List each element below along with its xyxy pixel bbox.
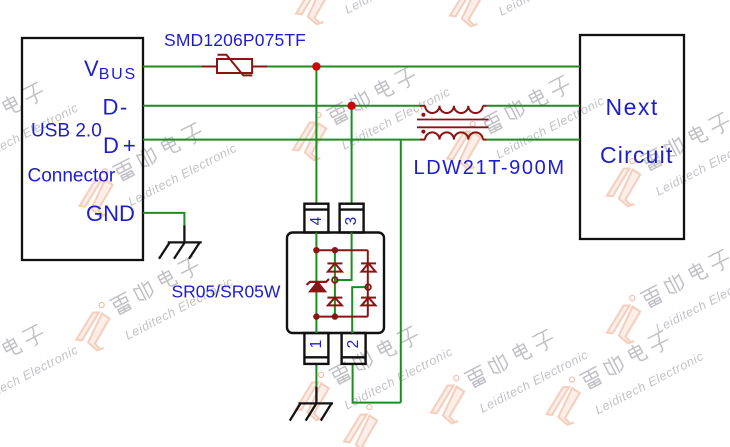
watermark tile mid-center — [281, 53, 453, 175]
wire GND from connector — [143, 213, 184, 227]
watermark tile mid-left — [67, 109, 239, 231]
common mode choke LDW21T-900M — [417, 106, 489, 140]
Next Circuit box — [580, 35, 684, 239]
junction VBUS node — [312, 62, 320, 70]
wire middle diode column — [334, 250, 336, 316]
svg-text:SR05/SR05W: SR05/SR05W — [172, 282, 281, 302]
ground symbol below SR05 pin 1 — [290, 387, 333, 421]
watermark tile bottom-edge — [332, 401, 394, 447]
steering diode top middle — [327, 263, 342, 271]
wire VBUS from fuse to Next Circuit — [268, 66, 580, 68]
wire D+ drop at right — [400, 140, 402, 403]
svg-text:2: 2 — [345, 340, 362, 349]
watermark tile top-center — [284, 0, 456, 39]
USB 2.0 connector box J1 — [22, 38, 143, 260]
wire pin 1 to ground — [315, 364, 317, 388]
wire pin 3 into body — [335, 233, 352, 281]
junction top rail left — [313, 247, 319, 253]
wire pin 4 through body to pin 1 — [315, 233, 317, 334]
svg-text:GND: GND — [86, 201, 135, 226]
watermark tile top-right — [438, 0, 610, 41]
wire VBUS drop to pin 4 — [315, 67, 317, 205]
SR05 pin 4 box — [304, 204, 328, 233]
watermark tile bottom-left-edge — [0, 311, 81, 433]
watermark tile right-lower — [595, 236, 730, 358]
wire bottom run to pin 2 — [353, 364, 401, 403]
TVS zener diode — [307, 279, 330, 291]
junction top rail middle — [332, 247, 338, 253]
svg-text:D+: D+ — [103, 133, 140, 158]
svg-text:3: 3 — [343, 217, 360, 226]
junction middle column node — [332, 277, 338, 283]
wire D- from choke to Next Circuit — [487, 105, 580, 107]
junction D- node — [347, 102, 355, 110]
junction bottom rail middle — [332, 313, 338, 319]
steering diode bottom middle — [327, 298, 342, 306]
choke phase dot winding 1 — [421, 113, 425, 117]
SR05 internal bottom rail — [316, 316, 367, 318]
watermark tile bottom-right — [534, 317, 706, 439]
svg-text:SMD1206P075TF: SMD1206P075TF — [164, 30, 306, 50]
svg-text:D-: D- — [103, 95, 129, 120]
svg-text:VBUS: VBUS — [84, 56, 137, 83]
SR05 pin 3 box — [340, 204, 364, 233]
SR05 internal top rail — [316, 249, 367, 251]
svg-text:USB 2.0: USB 2.0 — [31, 121, 102, 142]
svg-text:LDW21T-900M: LDW21T-900M — [414, 157, 566, 179]
steering diode bottom right — [361, 298, 376, 306]
choke phase dot winding 2 — [421, 130, 425, 134]
svg-text:Circuit: Circuit — [600, 142, 674, 168]
steering diode top right — [361, 263, 376, 271]
wire D+ from connector to choke — [143, 139, 420, 141]
PTC fuse SMD1206P075TF — [201, 55, 267, 76]
watermark tile left-upper — [0, 69, 81, 191]
wire D- drop to pin 3 — [351, 106, 353, 205]
svg-text:Connector: Connector — [28, 166, 116, 187]
watermark tile left-lower — [64, 243, 236, 365]
SR05 pin 2 box — [342, 333, 366, 364]
watermark tile next-circuit — [595, 99, 730, 221]
svg-text:Next: Next — [606, 94, 659, 120]
wire pin 2 into body — [352, 287, 368, 333]
watermark tile mid-right — [435, 62, 607, 184]
watermark tile bottom-mid — [419, 316, 591, 438]
wire VBUS from connector to fuse — [143, 66, 201, 68]
watermark tile bottom-center — [283, 313, 455, 435]
wire D+ from choke to Next Circuit — [487, 139, 580, 141]
SR05 internal right column — [367, 250, 369, 316]
wire D- from connector to choke — [143, 105, 420, 107]
svg-text:1: 1 — [308, 340, 325, 349]
svg-text:4: 4 — [308, 216, 325, 225]
SR05 body box — [287, 233, 384, 334]
junction bottom rail left — [313, 313, 319, 319]
SR05 pin 1 box — [304, 333, 328, 364]
ground symbol at USB connector — [159, 226, 202, 259]
junction right column node — [365, 284, 371, 290]
